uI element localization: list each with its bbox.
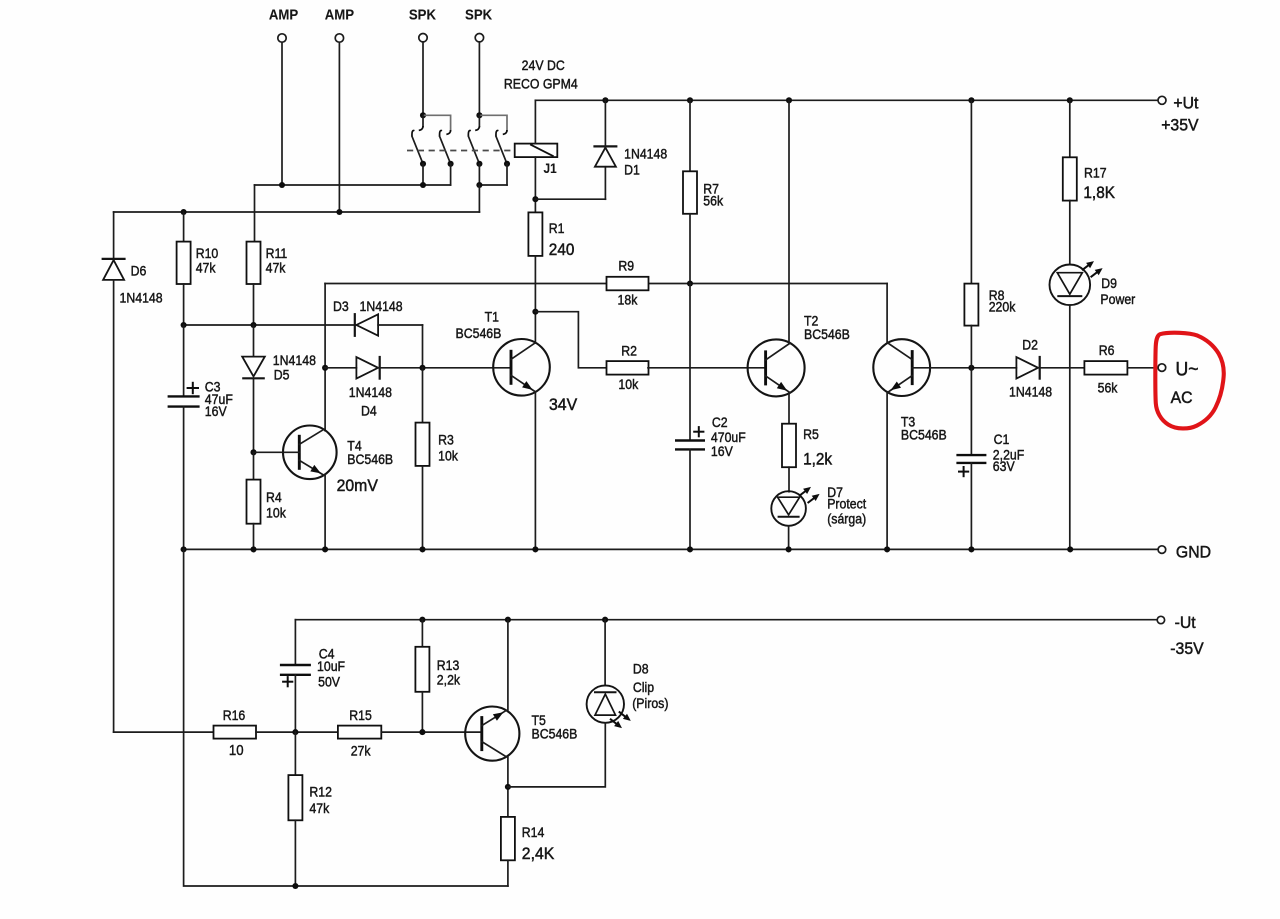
terminal +Ut [1158,96,1166,104]
svg-text:R6: R6 [1099,342,1115,358]
resistor R7 56k [683,171,697,214]
svg-text:D6: D6 [131,263,147,279]
resistor R14 2,4K [501,817,515,860]
junction GND/D9 [1067,546,1073,552]
resistor R4 10k [253,452,255,479]
svg-text:BC546B: BC546B [901,427,947,443]
svg-text:R2: R2 [621,343,637,359]
svg-text:1N4148: 1N4148 [120,290,163,306]
marker red hand-drawn circle around U~ AC [1155,333,1223,429]
svg-text:10uF: 10uF [317,658,345,674]
svg-text:2,4K: 2,4K [522,845,555,864]
wire R16 row [114,731,214,733]
junction T4 base node [250,449,256,455]
wire R2 to T2 base [648,367,766,369]
svg-text:50V: 50V [318,674,340,690]
wire D4 row [325,367,356,369]
resistor R13 2,2k [421,620,423,647]
transistor T2 BC546B [748,339,805,396]
junction T5 collector/D8/R14 [505,784,511,790]
svg-text:(sárga): (sárga) [827,511,866,527]
diode D2 1N4148 [1016,357,1038,378]
svg-text:1N4148: 1N4148 [624,146,667,162]
junction R1/R2 branch [532,309,538,315]
terminal U~ AC [1158,364,1166,372]
svg-text:2,2k: 2,2k [437,672,461,688]
wire bus y=185 right segment [479,184,507,186]
svg-text:47k: 47k [196,260,216,276]
wire R6 to U~ terminal [1127,367,1158,369]
wire relay coil to R1 [534,157,536,212]
relay switch arm b [496,130,498,136]
wire T5 emitter to -Ut rail [507,620,509,710]
svg-text:GND: GND [1176,543,1211,562]
junction top rail / R7 [687,97,693,103]
relay contact stub (NC fixed contact) [422,115,424,126]
wire AMP1 down [281,42,283,185]
svg-text:R12: R12 [309,784,332,800]
junction D3/D4/R3 node [419,365,425,371]
junction top rail / R17 [1067,97,1073,103]
junction arm b bottom [504,161,510,167]
svg-text:D9: D9 [1101,275,1117,291]
svg-text:+Ut: +Ut [1173,94,1198,113]
wire AMP2 down [338,42,340,212]
svg-text:16V: 16V [711,443,733,459]
svg-text:D5: D5 [274,367,290,383]
junction R13/T5 base [419,729,425,735]
svg-text:-35V: -35V [1170,640,1203,659]
wire D6 down to R16 wire [113,280,115,732]
svg-text:BC546B: BC546B [456,325,502,341]
wire D3 to corner [378,324,422,326]
svg-text:1N4148: 1N4148 [349,384,392,400]
transistor T5 BC546B [465,707,519,761]
resistor R15 27k [338,726,381,739]
diode D1 1N4148 [593,145,617,147]
svg-text:D4: D4 [361,403,377,419]
wire arm b to lower wire [450,164,452,185]
wire D5 to T4 base node [253,378,255,452]
svg-text:R13: R13 [437,657,460,673]
relay contact stub (NC fixed contact) [478,115,480,126]
wire D2 to R6 [1040,367,1085,369]
junction C4/R12 node [292,729,298,735]
junction GND/T4e [322,546,328,552]
svg-text:16V: 16V [205,403,227,419]
terminal AMP 2 [335,34,343,42]
junction GND/D7 [786,546,792,552]
wire T3 base to D2 [912,367,1016,369]
capacitor C2 470uF 16V [689,284,691,441]
svg-text:RECO GPM4: RECO GPM4 [504,76,578,92]
junction -Ut/R13 [419,617,425,623]
transistor T3 BC546B [873,339,930,396]
wire D8 to T5 collector node [508,723,605,787]
svg-text:AMP: AMP [325,6,354,23]
svg-text:Power: Power [1100,291,1135,307]
svg-text:U~: U~ [1176,358,1199,380]
wire bottom rail [184,549,508,886]
wire T3 collector diag riser is above; emitter to GND [886,392,888,549]
wire R14 to bottom rail [507,860,509,886]
relay contact bracket (NO fixed contact) [479,115,507,131]
diode D6 1N4148 [113,212,115,259]
svg-text:240: 240 [549,241,575,259]
relay switch arm a [412,130,414,136]
wire +Ut top rail [535,99,1157,101]
wire R8 to base node [970,326,972,368]
svg-text:BC546B: BC546B [347,451,393,467]
junction AMP2 on bus212 [336,209,342,215]
svg-text:63V: 63V [993,458,1015,474]
resistor R1 240 [528,212,542,256]
svg-text:SPK: SPK [465,6,493,23]
wire top rail to relay coil [534,100,536,143]
svg-text:D8: D8 [633,661,649,677]
LED D7 Protect [771,491,806,526]
wire T3 collector riser [886,284,888,344]
wire -Ut rail [295,619,1157,621]
terminal SPK 1 [419,34,427,42]
wire top rail to R7 [689,100,691,171]
svg-text:-Ut: -Ut [1175,613,1196,632]
wire T4 base [254,451,300,453]
svg-text:220k: 220k [989,299,1016,315]
svg-text:20mV: 20mV [337,477,378,496]
capacitor C4 10uF 50V [294,620,296,665]
junction GND/T1e [532,546,538,552]
junction relay / D1 return [532,196,538,202]
diode D4 1N4148 (pointing right) [356,357,378,378]
terminal AMP 1 [278,34,286,42]
junction SPK2 pole on bus [476,182,482,188]
svg-text:10: 10 [229,741,244,758]
wire C2 to GND [689,449,691,549]
svg-text:24V DC: 24V DC [522,57,566,73]
svg-text:18k: 18k [618,292,638,308]
resistor R6 56k [1084,361,1127,375]
svg-text:47k: 47k [309,800,329,816]
svg-text:T1: T1 [485,309,499,325]
svg-text:+35V: +35V [1161,116,1198,135]
svg-text:D3: D3 [333,298,349,314]
svg-text:56k: 56k [703,193,723,209]
junction top rail / D1 [602,97,608,103]
wire C1 to GND [970,463,972,550]
junction R8/C1 node [968,365,974,371]
wire arm b to lower wire [506,164,508,185]
svg-text:10k: 10k [618,376,638,392]
svg-text:R5: R5 [803,426,819,442]
terminal GND [1158,546,1166,554]
svg-text:R1: R1 [549,220,565,236]
svg-text:Protect: Protect [827,496,866,512]
wire D7 to GND [788,526,790,550]
junction AMP1 on bus [279,182,285,188]
wire R13 to base wire [421,692,423,732]
terminal -Ut [1157,616,1164,623]
junction R11/D5 node [250,322,256,328]
relay coil J1 [515,144,558,158]
wire R1 to T1 collector [534,256,536,343]
svg-text:R9: R9 [618,258,634,274]
junction arm a bottom [476,161,482,167]
diode D5 1N4148 (pointing down) [253,325,255,357]
wire R4 to GND [253,524,255,550]
junction top rail / R8 [968,97,974,103]
junction GND/R4 [250,546,256,552]
relay contact common node x=479.4 [476,112,482,118]
resistor R8 220k [970,100,972,283]
resistor R10 47k [183,212,185,242]
svg-text:R16: R16 [223,707,246,723]
svg-text:27k: 27k [351,743,371,759]
wire R15 to T5 base [381,731,481,733]
resistor R17 1,8K [1063,157,1077,200]
junction -Ut/T5 emitter [505,617,511,623]
resistor R5 1,2k [782,424,796,468]
wire arm a to lower wire [422,164,424,185]
wire R9 node horizontal [325,283,606,285]
junction -Ut/D8 [602,617,608,623]
wire T4 emitter to GND [324,475,326,550]
svg-text:10k: 10k [438,448,458,464]
wire bus y=212 [114,211,480,213]
junction GND/C3 [181,546,187,552]
svg-text:R15: R15 [349,707,372,723]
svg-text:R14: R14 [522,824,545,840]
transistor T4 BC546B [283,426,337,480]
wire top rail to R17 [1069,100,1071,157]
junction R9/R7 node [687,280,693,286]
relay contact common node x=423 [420,112,426,118]
svg-text:C2: C2 [712,414,728,430]
svg-text:R4: R4 [266,489,282,505]
svg-text:BC546B: BC546B [532,726,578,742]
wire R3 to GND [422,466,424,550]
wire R9 node down to D3/D4 block [324,284,326,431]
wire T2 collector to top rail [788,100,790,342]
wire R12 to bottom rail [294,820,296,886]
junction C3/R10 node [181,322,187,328]
wire D9 to GND [1069,305,1071,549]
wire R5 to D7 [788,467,790,492]
junction SPK1 pole on bus [420,182,426,188]
capacitor C3 47uF 16V [183,325,185,396]
junction top rail / T2 collector [786,97,792,103]
wire D4 to T1 base [378,367,511,369]
junction GND/C1 [968,546,974,552]
LED D9 Power [1050,265,1091,306]
wire D3 row [184,324,356,326]
svg-text:AMP: AMP [269,6,298,23]
svg-text:1,2k: 1,2k [803,451,832,469]
wire T2 emitter to R5 [788,393,790,423]
svg-text:BC546B: BC546B [804,326,850,342]
svg-text:AC: AC [1171,388,1193,407]
diode D3 1N4148 (pointing left) [356,314,378,335]
resistor R3 10k [422,368,424,423]
svg-text:47k: 47k [266,260,286,276]
resistor R12 47k [294,732,296,775]
wire GND rail [184,548,1158,550]
svg-text:1N4148: 1N4148 [1009,384,1052,400]
svg-text:R3: R3 [438,432,454,448]
wire arm a to lower wire [478,164,480,185]
LED D8 Clip [604,620,606,686]
wire R7 to R9 node [689,214,691,284]
resistor R11 47k [247,242,261,284]
junction GND/R3 [419,546,425,552]
svg-text:34V: 34V [549,396,577,415]
relay switch arm b [440,130,442,136]
junction R10 on bus212 [181,209,187,215]
wire bus185 to R11 [254,185,256,242]
svg-text:SPK: SPK [409,6,437,23]
wire C4 to R16 node [294,675,296,732]
wire to D1 bottom [535,198,605,200]
junction bottom rail/R12 [292,883,298,889]
svg-text:1N4148: 1N4148 [360,298,403,314]
junction GND/T3e [884,546,890,552]
relay contact bracket (NO fixed contact) [423,115,451,131]
svg-text:C1: C1 [994,431,1010,447]
junction arm a bottom [420,161,426,167]
wire T1 emitter to GND [534,392,536,549]
wire C3 to GND rail [183,407,185,550]
svg-text:56k: 56k [1098,380,1118,396]
wire R17 to D9 [1069,201,1071,265]
junction GND/C2 [687,546,693,552]
resistor R9 18k [607,277,649,291]
relay switch arm a [468,130,470,136]
relay actuator dashed line [407,150,515,152]
wire AMP/SPK bus y=185 [255,184,451,186]
wire SPK2 down [478,42,480,115]
svg-text:D2: D2 [1022,337,1038,353]
capacitor C1 2,2uF 63V [970,368,972,455]
svg-text:10k: 10k [266,505,286,521]
svg-text:J1: J1 [544,160,557,176]
terminal SPK 2 [475,34,483,42]
wire R2 branch from T1 collector [535,312,606,368]
wire R16 to C4 node [256,731,338,733]
junction D4 wire / T4 collector [322,365,328,371]
svg-text:1N4148: 1N4148 [273,352,316,368]
resistor R16 10 [214,726,257,739]
resistor R2 10k [607,361,649,375]
svg-text:1,8K: 1,8K [1083,185,1115,203]
svg-text:D1: D1 [624,162,640,178]
transistor T1 BC546B [493,339,550,396]
wire T5 collector down [507,757,509,817]
junction arm b bottom [448,161,454,167]
svg-text:Clip: Clip [633,679,654,695]
svg-text:R17: R17 [1084,165,1107,181]
svg-text:(Piros): (Piros) [632,695,668,711]
wire SPK1 down [422,42,424,115]
